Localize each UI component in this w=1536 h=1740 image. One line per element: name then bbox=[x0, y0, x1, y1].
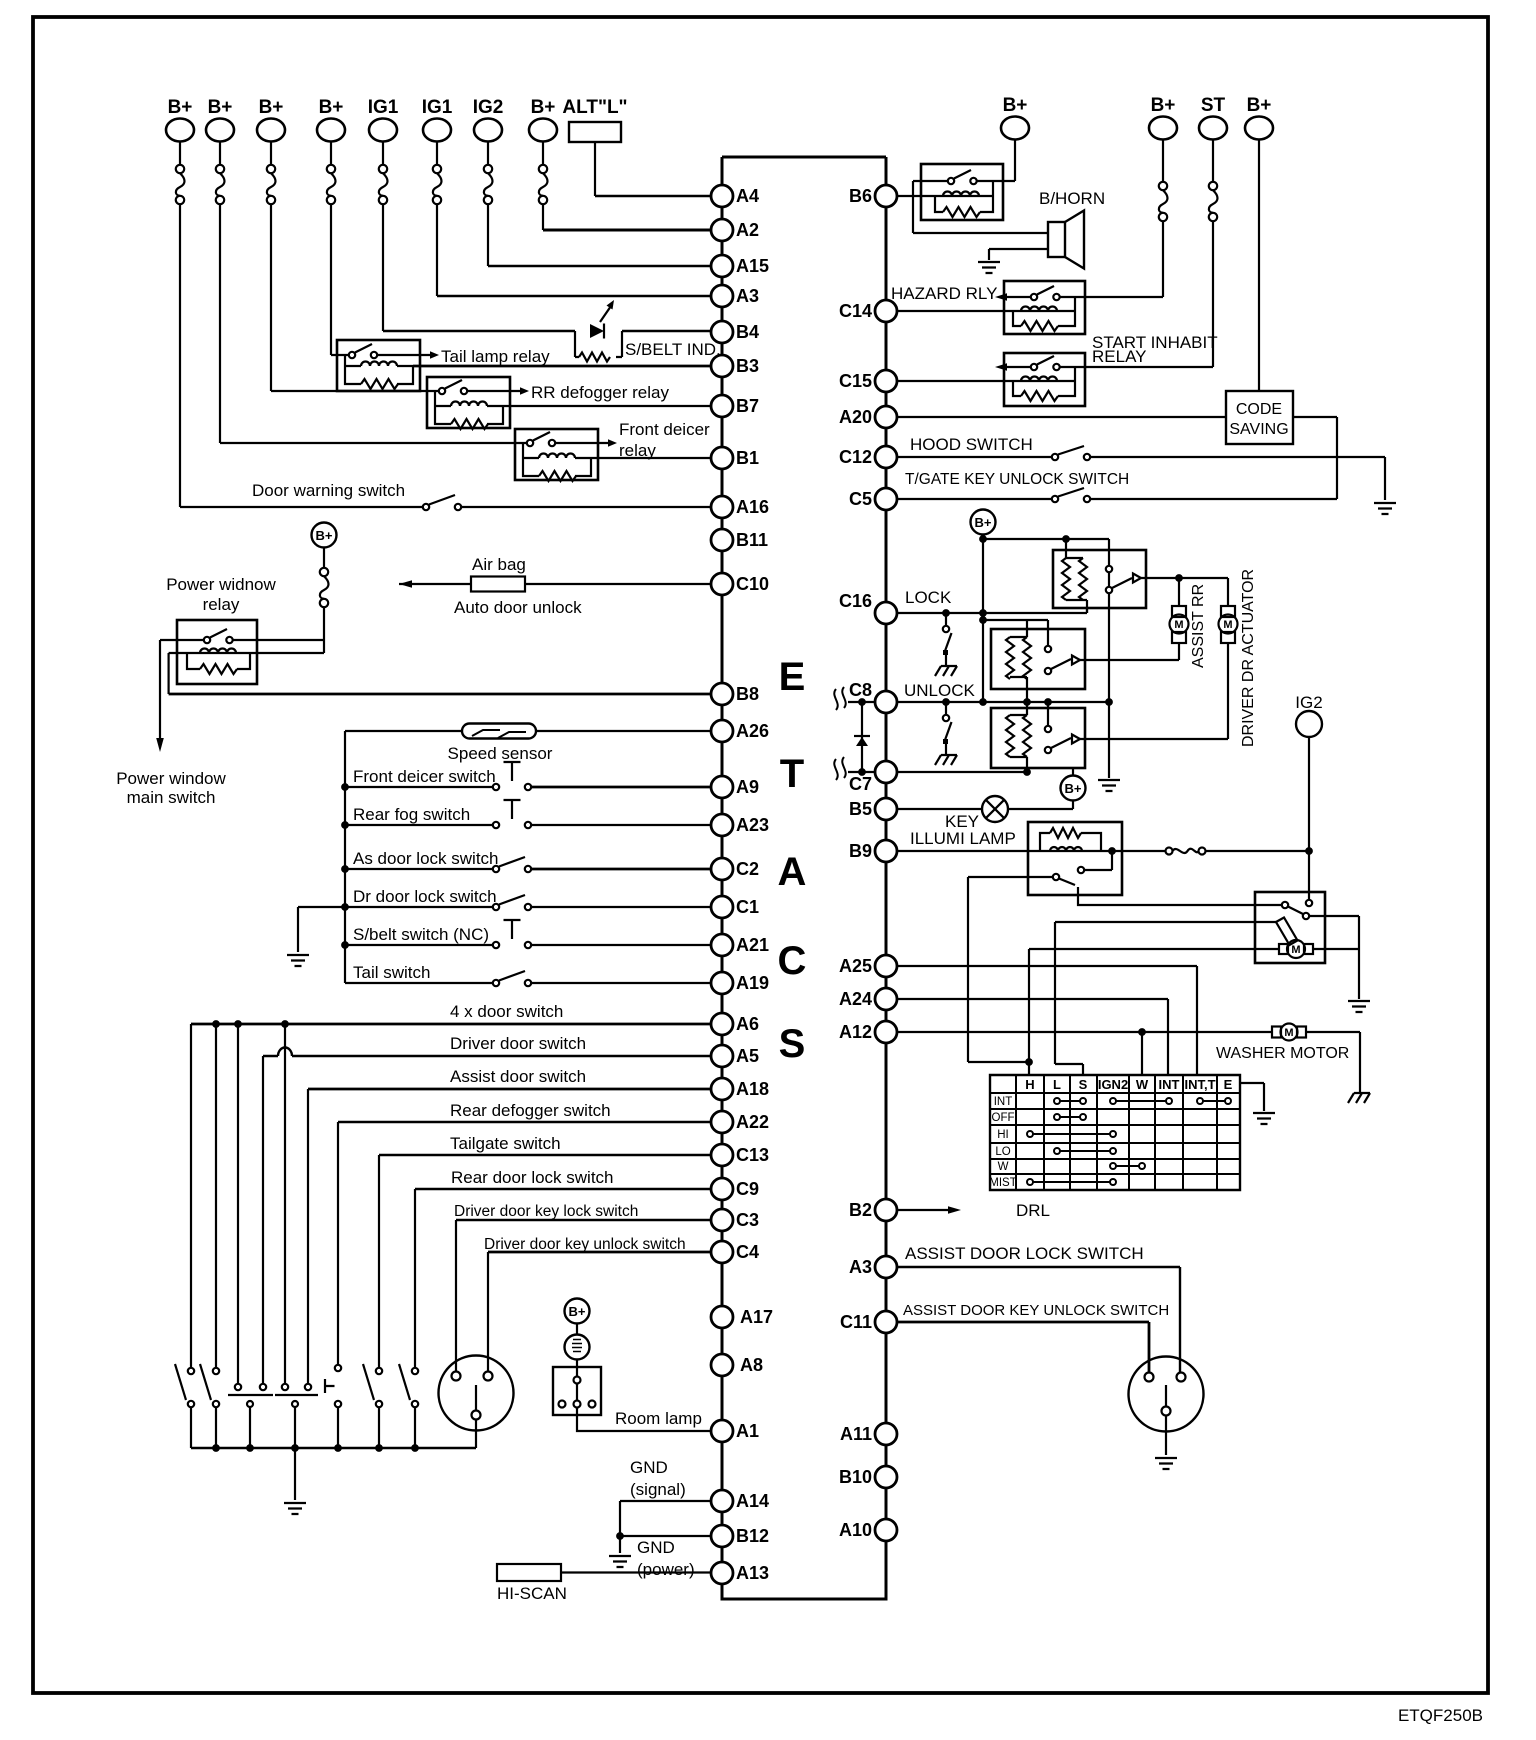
svg-text:A24: A24 bbox=[839, 989, 872, 1009]
svg-text:LOCK: LOCK bbox=[905, 588, 952, 607]
svg-text:ETQF250B: ETQF250B bbox=[1398, 1706, 1483, 1725]
svg-text:B3: B3 bbox=[736, 356, 759, 376]
svg-text:(power): (power) bbox=[637, 1560, 695, 1579]
svg-text:A1: A1 bbox=[736, 1421, 759, 1441]
svg-text:Rear fog switch: Rear fog switch bbox=[353, 805, 470, 824]
svg-text:A5: A5 bbox=[736, 1046, 759, 1066]
svg-text:B9: B9 bbox=[849, 841, 872, 861]
svg-text:Speed sensor: Speed sensor bbox=[448, 744, 553, 763]
svg-text:Tail switch: Tail switch bbox=[353, 963, 430, 982]
svg-text:LO: LO bbox=[995, 1146, 1010, 1158]
svg-text:T/GATE KEY UNLOCK SWITCH: T/GATE KEY UNLOCK SWITCH bbox=[905, 471, 1129, 488]
svg-text:A6: A6 bbox=[736, 1014, 759, 1034]
svg-text:relay: relay bbox=[203, 595, 240, 614]
svg-text:MIST: MIST bbox=[989, 1177, 1016, 1189]
svg-text:A11: A11 bbox=[840, 1424, 872, 1444]
svg-text:IG1: IG1 bbox=[422, 97, 453, 118]
svg-text:C15: C15 bbox=[839, 371, 872, 391]
svg-text:S/belt switch (NC): S/belt switch (NC) bbox=[353, 925, 489, 944]
svg-text:B8: B8 bbox=[736, 684, 759, 704]
svg-text:C10: C10 bbox=[736, 574, 769, 594]
svg-text:S: S bbox=[779, 1022, 806, 1066]
svg-text:B+: B+ bbox=[1003, 95, 1028, 116]
svg-text:A3: A3 bbox=[736, 286, 759, 306]
svg-text:WASHER MOTOR: WASHER MOTOR bbox=[1216, 1045, 1349, 1062]
svg-text:B6: B6 bbox=[849, 186, 872, 206]
svg-text:C2: C2 bbox=[736, 859, 759, 879]
svg-text:GND: GND bbox=[630, 1458, 668, 1477]
svg-text:ST: ST bbox=[1201, 95, 1226, 116]
svg-text:B10: B10 bbox=[839, 1467, 872, 1487]
svg-text:ILLUMI LAMP: ILLUMI LAMP bbox=[910, 829, 1016, 848]
svg-text:A19: A19 bbox=[736, 973, 769, 993]
svg-text:M: M bbox=[1284, 1027, 1293, 1039]
svg-text:Room lamp: Room lamp bbox=[615, 1409, 702, 1428]
svg-text:IG1: IG1 bbox=[368, 97, 399, 118]
svg-text:A23: A23 bbox=[736, 815, 769, 835]
svg-text:relay: relay bbox=[619, 441, 656, 460]
svg-text:As door lock switch: As door lock switch bbox=[353, 849, 499, 868]
svg-text:Tailgate switch: Tailgate switch bbox=[450, 1134, 561, 1153]
svg-text:UNLOCK: UNLOCK bbox=[904, 681, 976, 700]
svg-text:IG2: IG2 bbox=[473, 97, 504, 118]
svg-text:B+: B+ bbox=[569, 1304, 586, 1319]
svg-text:Rear defogger switch: Rear defogger switch bbox=[450, 1101, 611, 1120]
svg-text:H: H bbox=[1025, 1077, 1034, 1092]
svg-text:B+: B+ bbox=[319, 97, 344, 118]
svg-text:W: W bbox=[1136, 1077, 1149, 1092]
svg-text:A3: A3 bbox=[849, 1257, 872, 1277]
svg-text:Power window: Power window bbox=[116, 769, 226, 788]
svg-text:B5: B5 bbox=[849, 799, 872, 819]
svg-text:Driver door key lock switch: Driver door key lock switch bbox=[454, 1203, 638, 1220]
svg-text:A21: A21 bbox=[736, 935, 769, 955]
svg-text:C7: C7 bbox=[849, 774, 872, 794]
svg-text:Driver door key unlock switch: Driver door key unlock switch bbox=[484, 1236, 686, 1253]
svg-text:C3: C3 bbox=[736, 1210, 759, 1230]
svg-text:B+: B+ bbox=[208, 97, 233, 118]
svg-text:OFF: OFF bbox=[992, 1112, 1015, 1124]
svg-text:B1: B1 bbox=[736, 448, 759, 468]
svg-text:A20: A20 bbox=[839, 407, 872, 427]
svg-text:B11: B11 bbox=[736, 530, 768, 550]
svg-text:Front deicer: Front deicer bbox=[619, 420, 710, 439]
svg-text:A12: A12 bbox=[839, 1022, 872, 1042]
svg-text:RR defogger relay: RR defogger relay bbox=[531, 383, 669, 402]
svg-text:DRIVER DR ACTUATOR: DRIVER DR ACTUATOR bbox=[1240, 569, 1257, 747]
svg-text:M: M bbox=[1291, 944, 1300, 956]
svg-text:Door warning switch: Door warning switch bbox=[252, 481, 405, 500]
svg-text:A26: A26 bbox=[736, 721, 769, 741]
svg-text:T: T bbox=[780, 752, 804, 796]
svg-text:C9: C9 bbox=[736, 1179, 759, 1199]
svg-text:E: E bbox=[779, 655, 806, 699]
svg-text:B2: B2 bbox=[849, 1200, 872, 1220]
svg-text:L: L bbox=[1053, 1077, 1061, 1092]
svg-text:Driver door switch: Driver door switch bbox=[450, 1034, 586, 1053]
svg-text:A10: A10 bbox=[839, 1520, 872, 1540]
svg-text:ASSIST DOOR KEY UNLOCK SWITCH: ASSIST DOOR KEY UNLOCK SWITCH bbox=[903, 1302, 1169, 1319]
svg-text:C12: C12 bbox=[839, 447, 872, 467]
svg-text:B/HORN: B/HORN bbox=[1039, 189, 1105, 208]
svg-text:C: C bbox=[778, 939, 807, 983]
svg-text:S: S bbox=[1079, 1077, 1088, 1092]
svg-text:M: M bbox=[1223, 619, 1232, 631]
svg-text:B+: B+ bbox=[1247, 95, 1272, 116]
svg-text:Front deicer switch: Front deicer switch bbox=[353, 767, 496, 786]
svg-text:A4: A4 bbox=[736, 186, 759, 206]
svg-text:E: E bbox=[1224, 1077, 1233, 1092]
svg-text:ASSIST DOOR LOCK SWITCH: ASSIST DOOR LOCK SWITCH bbox=[905, 1244, 1144, 1263]
svg-text:C11: C11 bbox=[840, 1312, 872, 1332]
svg-text:Assist door switch: Assist door switch bbox=[450, 1067, 586, 1086]
svg-text:A16: A16 bbox=[736, 497, 769, 517]
svg-text:DRL: DRL bbox=[1016, 1201, 1050, 1220]
svg-text:SAVING: SAVING bbox=[1229, 421, 1288, 438]
svg-text:A2: A2 bbox=[736, 220, 759, 240]
svg-text:GND: GND bbox=[637, 1538, 675, 1557]
svg-text:S/BELT IND.: S/BELT IND. bbox=[625, 340, 721, 359]
svg-text:A17: A17 bbox=[740, 1307, 773, 1327]
svg-text:main switch: main switch bbox=[127, 788, 216, 807]
svg-text:Power widnow: Power widnow bbox=[166, 575, 276, 594]
svg-text:C1: C1 bbox=[736, 897, 759, 917]
svg-text:B+: B+ bbox=[531, 97, 556, 118]
svg-text:B+: B+ bbox=[168, 97, 193, 118]
svg-text:A25: A25 bbox=[839, 956, 872, 976]
svg-text:INT: INT bbox=[994, 1096, 1013, 1108]
svg-text:A8: A8 bbox=[740, 1355, 763, 1375]
svg-text:C14: C14 bbox=[839, 301, 872, 321]
svg-text:B4: B4 bbox=[736, 322, 759, 342]
svg-text:A: A bbox=[778, 850, 807, 894]
svg-text:ASSIST RR: ASSIST RR bbox=[1190, 584, 1207, 668]
svg-text:HI-SCAN: HI-SCAN bbox=[497, 1584, 567, 1603]
svg-text:A9: A9 bbox=[736, 777, 759, 797]
svg-text:INT,T: INT,T bbox=[1184, 1077, 1215, 1092]
svg-text:C8: C8 bbox=[849, 680, 872, 700]
svg-text:Air bag: Air bag bbox=[472, 555, 526, 574]
svg-text:4 x door switch: 4 x door switch bbox=[450, 1002, 563, 1021]
svg-text:(signal): (signal) bbox=[630, 1480, 686, 1499]
svg-text:B+: B+ bbox=[316, 528, 333, 543]
svg-text:IGN2: IGN2 bbox=[1098, 1077, 1128, 1092]
svg-text:A22: A22 bbox=[736, 1112, 769, 1132]
svg-text:A14: A14 bbox=[736, 1491, 769, 1511]
svg-text:A15: A15 bbox=[736, 256, 769, 276]
svg-text:CODE: CODE bbox=[1236, 401, 1282, 418]
svg-text:ALT"L": ALT"L" bbox=[562, 97, 627, 118]
svg-text:HAZARD RLY: HAZARD RLY bbox=[891, 284, 997, 303]
svg-text:C5: C5 bbox=[849, 489, 872, 509]
svg-text:C4: C4 bbox=[736, 1242, 759, 1262]
svg-text:A13: A13 bbox=[736, 1563, 769, 1583]
svg-text:W: W bbox=[998, 1161, 1009, 1173]
svg-text:C16: C16 bbox=[839, 591, 872, 611]
svg-text:IG2: IG2 bbox=[1295, 693, 1322, 712]
svg-text:HOOD SWITCH: HOOD SWITCH bbox=[910, 435, 1033, 454]
svg-text:RELAY: RELAY bbox=[1092, 347, 1147, 366]
svg-text:B+: B+ bbox=[975, 515, 992, 530]
svg-text:INT: INT bbox=[1159, 1077, 1180, 1092]
svg-text:Rear door lock switch: Rear door lock switch bbox=[451, 1168, 614, 1187]
svg-text:Tail lamp relay: Tail lamp relay bbox=[441, 347, 550, 366]
svg-text:B+: B+ bbox=[1151, 95, 1176, 116]
svg-text:M: M bbox=[1174, 619, 1183, 631]
svg-text:B12: B12 bbox=[736, 1526, 769, 1546]
svg-text:Dr door lock switch: Dr door lock switch bbox=[353, 887, 497, 906]
svg-text:Auto door unlock: Auto door unlock bbox=[454, 598, 582, 617]
svg-text:B7: B7 bbox=[736, 396, 759, 416]
svg-text:HI: HI bbox=[997, 1129, 1009, 1141]
svg-text:A18: A18 bbox=[736, 1079, 769, 1099]
svg-text:C13: C13 bbox=[736, 1145, 769, 1165]
svg-text:B+: B+ bbox=[259, 97, 284, 118]
svg-text:B+: B+ bbox=[1065, 781, 1082, 796]
